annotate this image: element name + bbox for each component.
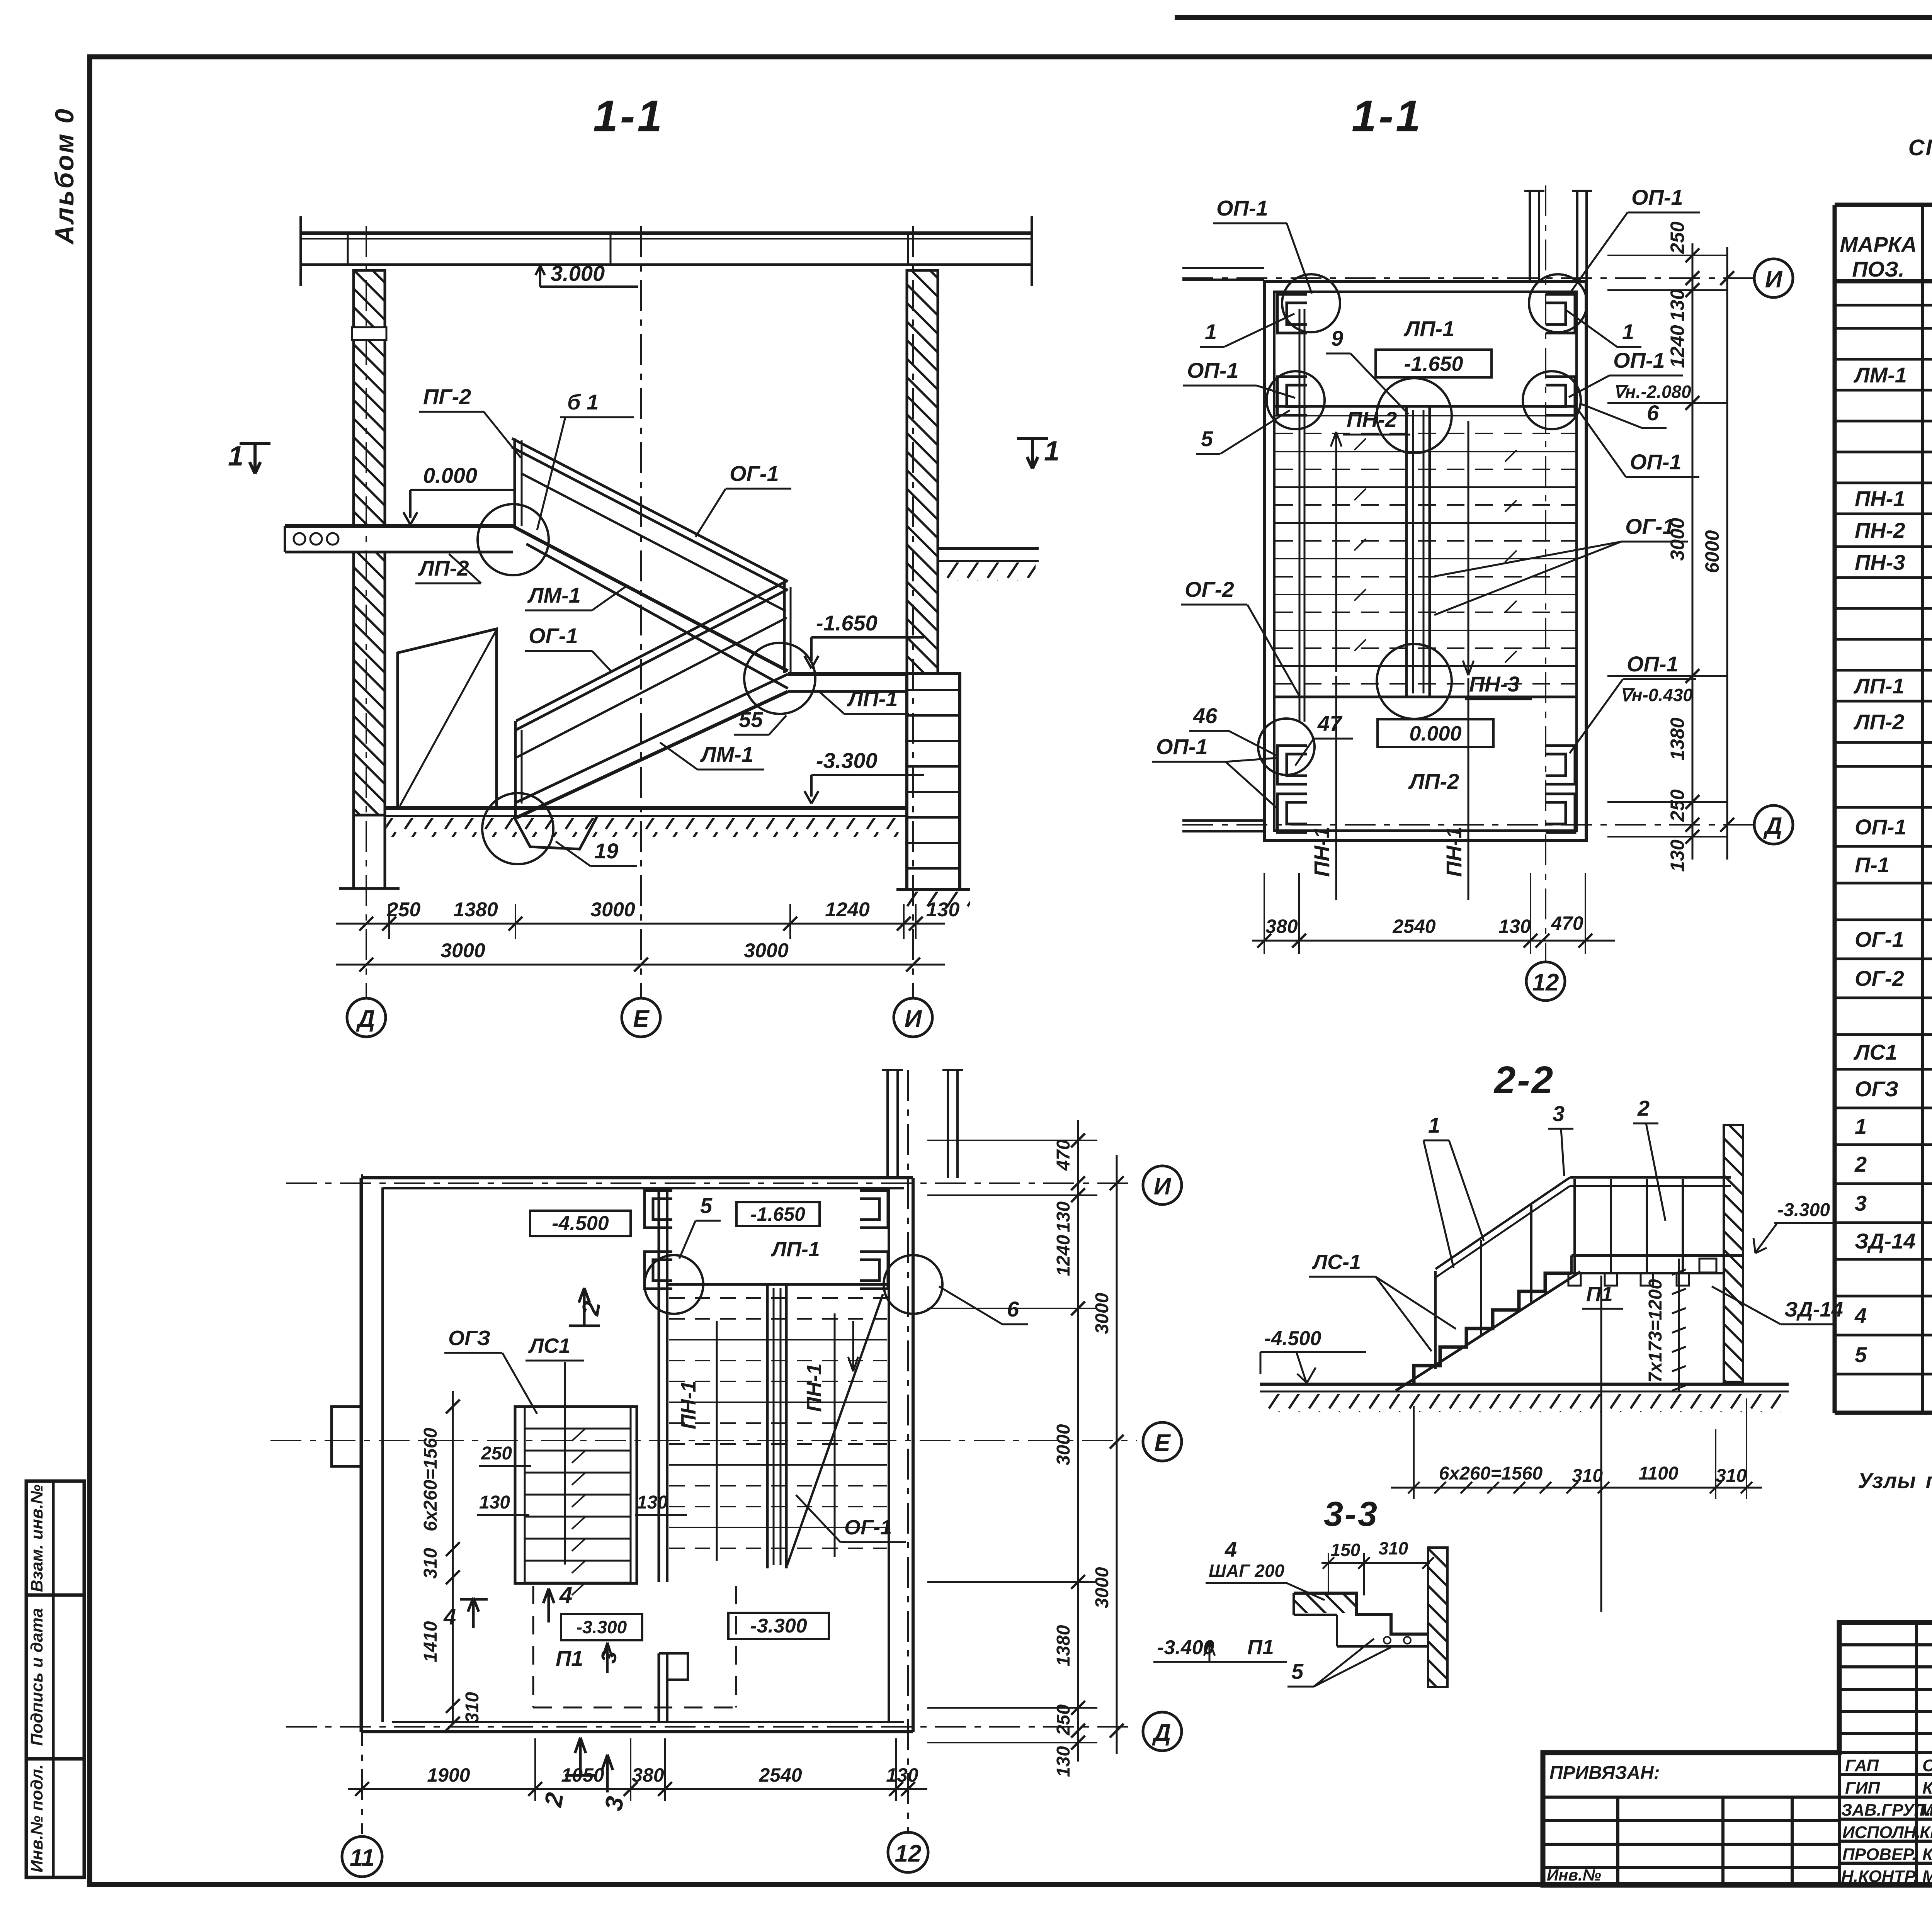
svg-text:4: 4	[1225, 1537, 1237, 1561]
svg-text:1: 1	[1044, 436, 1060, 467]
svg-text:2: 2	[1637, 1096, 1650, 1120]
lower flight LM-1	[516, 691, 788, 818]
svg-text:ПН-3: ПН-3	[1469, 672, 1520, 696]
svg-text:Е: Е	[633, 1006, 650, 1032]
svg-text:ЗАВ.ГРУП.: ЗАВ.ГРУП.	[1841, 1801, 1931, 1819]
svg-text:П1: П1	[1247, 1636, 1274, 1659]
svg-text:250: 250	[387, 899, 421, 921]
axis 12 line	[1545, 185, 1546, 961]
left stamp divider vertical	[52, 1481, 55, 1877]
sheet top edge line	[1175, 15, 1932, 20]
svg-text:П1: П1	[1586, 1283, 1613, 1306]
ground hatch 2-2	[1267, 1394, 1781, 1412]
roles and names	[1841, 1756, 1932, 1886]
svg-text:ЛМ-1: ЛМ-1	[700, 742, 753, 766]
lower guardrail bottom chord	[516, 618, 787, 758]
axis 12 line lower	[907, 1070, 909, 1834]
svg-text:1100: 1100	[1638, 1463, 1679, 1484]
svg-text:ОП-1: ОП-1	[1187, 358, 1239, 382]
svg-text:Узлы приняты по серии 2.250-2: Узлы приняты по серии 2.250-2 вып.1	[1858, 1468, 1932, 1493]
rebar dots	[1384, 1637, 1391, 1644]
svg-text:1900: 1900	[427, 1764, 470, 1786]
svg-text:130: 130	[926, 899, 960, 921]
svg-text:12: 12	[895, 1840, 922, 1867]
landing LP-2 edge	[1274, 696, 1577, 698]
detail circle 6	[884, 1255, 942, 1314]
svg-text:1: 1	[1622, 319, 1634, 344]
level mark 0.000	[403, 490, 514, 525]
svg-text:3000: 3000	[1092, 1567, 1112, 1608]
svg-text:47: 47	[1317, 711, 1343, 736]
bottom dim 2-2	[1391, 1487, 1762, 1489]
detail circle b1	[478, 504, 549, 575]
svg-text:310: 310	[1716, 1466, 1747, 1486]
svg-text:ПРОВЕР.: ПРОВЕР.	[1842, 1845, 1917, 1864]
divider lower	[767, 1284, 786, 1568]
ground hatch right	[939, 562, 1036, 581]
svg-text:П1: П1	[556, 1646, 583, 1670]
axis bubble И	[1754, 259, 1793, 297]
svg-text:2-2: 2-2	[1493, 1058, 1555, 1102]
svg-text:КИРИЕНКОВА: КИРИЕНКОВА	[1920, 1823, 1932, 1842]
svg-text:Е: Е	[1154, 1430, 1171, 1456]
svg-text:1: 1	[1855, 1114, 1867, 1138]
svg-text:1240: 1240	[1667, 325, 1688, 368]
wall footing left	[339, 815, 400, 888]
svg-text:Н.КОНТР.: Н.КОНТР.	[1841, 1867, 1918, 1886]
svg-text:И: И	[1154, 1173, 1172, 1200]
rail posts	[1435, 1179, 1683, 1369]
svg-text:3000: 3000	[1667, 518, 1688, 561]
svg-text:380: 380	[632, 1764, 664, 1786]
guardrail end post right	[783, 579, 786, 673]
svg-text:7х173=1200: 7х173=1200	[1645, 1279, 1666, 1383]
svg-text:3000: 3000	[1053, 1424, 1074, 1465]
svg-text:ПН-2: ПН-2	[1855, 518, 1905, 542]
boxed -4.500	[530, 1211, 631, 1236]
landing LP-1 edge	[1274, 405, 1577, 408]
pit under floor	[514, 817, 597, 849]
svg-text:ПН-1: ПН-1	[1310, 826, 1334, 877]
axis bubble Д	[1754, 805, 1793, 844]
upper flight LM-1	[512, 526, 788, 671]
axis И line	[1182, 277, 1754, 279]
svg-text:-4.500: -4.500	[1264, 1327, 1321, 1350]
svg-text:ЛС1: ЛС1	[1853, 1040, 1897, 1064]
axis Е line	[640, 226, 642, 998]
svg-text:Д: Д	[1763, 813, 1782, 839]
svg-text:ПГ-2: ПГ-2	[423, 384, 471, 409]
svg-text:ПОЗ.: ПОЗ.	[1852, 257, 1904, 281]
ground hatch under pier	[900, 892, 970, 909]
svg-text:Д: Д	[356, 1006, 375, 1032]
svg-text:3000: 3000	[440, 939, 485, 962]
door diagonal	[400, 631, 496, 806]
svg-text:1380: 1380	[1667, 717, 1688, 760]
svg-text:250: 250	[1667, 789, 1688, 822]
svg-text:2: 2	[1854, 1152, 1867, 1176]
detail circle 19	[482, 793, 553, 864]
svg-text:12: 12	[1532, 969, 1559, 996]
outer walls	[361, 1178, 913, 1732]
svg-text:∇н.-2.080: ∇н.-2.080	[1613, 382, 1691, 402]
axis И line	[912, 226, 914, 998]
axis bubble Е lower	[1143, 1422, 1182, 1461]
wall 3-3	[1428, 1548, 1447, 1687]
pier base line	[896, 888, 970, 891]
svg-text:ОГ-1: ОГ-1	[529, 623, 578, 648]
svg-text:-1.650: -1.650	[816, 611, 878, 635]
svg-text:ОГ-1: ОГ-1	[844, 1516, 892, 1539]
svg-text:4: 4	[1854, 1303, 1867, 1328]
privyazan box grid	[1543, 1797, 1839, 1885]
svg-text:9: 9	[1331, 326, 1343, 350]
svg-text:5: 5	[1201, 426, 1213, 451]
svg-text:ПРИВЯЗАН:: ПРИВЯЗАН:	[1549, 1763, 1660, 1783]
stairwell walls outer	[1264, 282, 1586, 841]
slab under step	[1337, 1645, 1428, 1648]
boxed level -1.650	[1376, 350, 1492, 377]
right dim total 6000	[1726, 247, 1728, 860]
left stamp divider 2	[26, 1757, 84, 1761]
svg-text:6000: 6000	[1701, 530, 1723, 573]
svg-text:1-1: 1-1	[1352, 92, 1423, 141]
left stamp divider 1	[26, 1594, 84, 1597]
svg-text:СМИРНОВ: СМИРНОВ	[1922, 1756, 1932, 1775]
svg-text:150: 150	[1331, 1540, 1361, 1560]
svg-text:1: 1	[1205, 319, 1217, 344]
tread lines lower	[669, 1298, 887, 1548]
svg-text:ПН-1: ПН-1	[1442, 826, 1466, 877]
hollow cores of LP-2	[294, 533, 305, 545]
svg-text:250: 250	[1667, 221, 1688, 254]
right brick pier	[907, 674, 960, 889]
svg-text:ИСПОЛН.: ИСПОЛН.	[1842, 1823, 1921, 1842]
level mark -1.650	[804, 637, 924, 668]
axis bubble Д	[347, 998, 386, 1037]
svg-text:Подпись и дата: Подпись и дата	[27, 1608, 46, 1746]
axis Д line	[366, 226, 367, 998]
svg-text:Взам. инв.№: Взам. инв.№	[27, 1485, 46, 1592]
vertical dim 7x173	[1678, 1259, 1680, 1391]
svg-text:ПН-3: ПН-3	[1855, 550, 1905, 574]
right wall 2-2	[1724, 1125, 1743, 1382]
section marks 2 3 bottom	[565, 1738, 613, 1792]
svg-text:380: 380	[1265, 916, 1298, 937]
level mark -3.300	[804, 775, 924, 804]
svg-text:ЛМ-1: ЛМ-1	[1853, 363, 1907, 387]
dimension line row 2	[336, 964, 945, 966]
post anchors under landing	[1568, 1273, 1689, 1286]
svg-text:3-3: 3-3	[1324, 1495, 1379, 1534]
PN-1 leader lines	[1335, 676, 1337, 900]
svg-text:3.000: 3.000	[551, 261, 605, 285]
anchor plates OP-1	[1277, 294, 1575, 832]
svg-text:ПН-1: ПН-1	[1855, 486, 1905, 511]
detail circles	[1258, 274, 1587, 775]
svg-text:46: 46	[1193, 703, 1218, 728]
down arrow	[1463, 421, 1474, 675]
axis Е lower line	[270, 1440, 1137, 1441]
svg-text:3000: 3000	[744, 939, 789, 962]
svg-text:∇н-0.430: ∇н-0.430	[1620, 685, 1693, 705]
svg-text:-3.300: -3.300	[816, 748, 878, 773]
right wall hatched	[907, 270, 938, 674]
svg-text:1380: 1380	[1053, 1625, 1074, 1666]
svg-text:ОП-1: ОП-1	[1627, 652, 1679, 676]
left pilaster	[332, 1407, 361, 1466]
svg-text:1-1: 1-1	[593, 92, 664, 141]
svg-text:ЛМ-1: ЛМ-1	[527, 583, 581, 607]
spec table pipe rows	[1854, 1109, 1932, 1220]
svg-text:470: 470	[1551, 912, 1583, 934]
interior partition	[659, 1188, 688, 1722]
svg-text:1410: 1410	[420, 1621, 441, 1662]
svg-text:ГИП: ГИП	[1845, 1779, 1881, 1797]
svg-text:3000: 3000	[1092, 1293, 1112, 1334]
svg-text:ЛП-2: ЛП-2	[418, 556, 469, 580]
svg-text:ЛС-1: ЛС-1	[1311, 1250, 1361, 1274]
svg-text:ОГ-1: ОГ-1	[1855, 927, 1904, 951]
svg-text:5: 5	[700, 1193, 713, 1218]
stair LS1 block	[515, 1407, 637, 1583]
svg-text:130: 130	[1667, 839, 1688, 872]
level mark 3.000	[536, 266, 638, 287]
svg-text:6х260=1560: 6х260=1560	[1439, 1463, 1543, 1484]
svg-text:ОП-1: ОП-1	[1216, 196, 1268, 220]
floor lines left top	[1182, 267, 1264, 269]
axis bubble И lower	[1143, 1166, 1182, 1204]
right dim chain coarse lower	[1116, 1155, 1118, 1754]
landing LP-1 edge lower plan	[667, 1283, 889, 1286]
signature table row lines	[1839, 1643, 1932, 1646]
ground line	[1260, 1383, 1789, 1386]
svg-text:МАРКА: МАРКА	[1840, 232, 1917, 257]
svg-text:-4.500: -4.500	[552, 1212, 609, 1235]
wall opening above	[1524, 191, 1592, 282]
svg-text:5: 5	[1291, 1659, 1304, 1684]
flight down arrow lower	[848, 1321, 858, 1371]
guardrail diagonal OG-1 lower	[787, 1294, 883, 1565]
svg-text:МАРГУЛИЯ: МАРГУЛИЯ	[1922, 1867, 1932, 1886]
svg-text:ОГ-2: ОГ-2	[1185, 577, 1234, 601]
svg-text:1380: 1380	[453, 899, 498, 921]
axis Д lower line	[286, 1726, 1137, 1728]
axis 11 line	[361, 1174, 363, 1834]
handrail landing	[1570, 1176, 1731, 1179]
svg-text:6х260=1560: 6х260=1560	[420, 1428, 441, 1532]
svg-text:Альбом 0: Альбом 0	[50, 107, 79, 245]
svg-text:310: 310	[1379, 1538, 1408, 1558]
spec table header	[1840, 228, 1932, 281]
top floor slab	[301, 216, 1032, 286]
svg-text:ПН-1: ПН-1	[677, 1381, 700, 1429]
boxed -3.300 lower	[728, 1613, 829, 1639]
svg-text:ЛП-1: ЛП-1	[1403, 316, 1455, 341]
svg-text:310: 310	[1572, 1466, 1603, 1486]
svg-text:55: 55	[739, 707, 763, 732]
walk line ticks	[1354, 438, 1517, 663]
svg-text:3: 3	[1855, 1191, 1867, 1215]
svg-text:4: 4	[443, 1604, 456, 1629]
svg-text:ЛП-2: ЛП-2	[1408, 769, 1459, 793]
svg-text:130: 130	[1053, 1201, 1074, 1232]
dim values row 1	[387, 899, 960, 921]
spec table data rows	[1853, 363, 1932, 1406]
lower guardrail OG-2	[516, 581, 787, 721]
svg-text:470: 470	[1053, 1140, 1074, 1171]
bottom dim values	[1265, 912, 1583, 937]
stair hatch ticks	[572, 1429, 585, 1595]
svg-text:-3.300: -3.300	[1777, 1200, 1830, 1220]
door opening	[398, 629, 497, 808]
boxed -1.650 lower	[736, 1202, 820, 1226]
external floor right	[938, 547, 1039, 550]
svg-text:130: 130	[1667, 289, 1688, 321]
svg-text:3: 3	[1553, 1101, 1565, 1126]
svg-text:Инв.№ подл.: Инв.№ подл.	[27, 1764, 46, 1872]
svg-text:ЛП-1: ЛП-1	[847, 686, 898, 711]
svg-text:130: 130	[479, 1492, 510, 1513]
svg-text:КАЛЕДИНА: КАЛЕДИНА	[1922, 1779, 1932, 1797]
dimension line row 1	[336, 923, 945, 925]
svg-text:1240: 1240	[1053, 1235, 1074, 1276]
left wall joint band	[352, 327, 386, 340]
svg-text:ЗД-14: ЗД-14	[1784, 1298, 1843, 1321]
svg-text:130: 130	[637, 1492, 668, 1513]
stringer underside	[1396, 1272, 1580, 1391]
landing LP-1 slab -1.650	[788, 672, 907, 676]
svg-text:310: 310	[462, 1692, 483, 1723]
svg-text:Д: Д	[1152, 1719, 1171, 1746]
spec table grid	[1835, 205, 1932, 1413]
svg-text:б 1: б 1	[567, 390, 599, 414]
ground hatch under floor	[386, 818, 904, 837]
anchor plate right	[1699, 1259, 1716, 1272]
left wall hatched	[354, 270, 385, 526]
svg-text:ОП-1: ОП-1	[1630, 450, 1682, 474]
svg-text:ПН-2: ПН-2	[1347, 407, 1397, 432]
svg-text:3000: 3000	[590, 899, 635, 921]
svg-text:11: 11	[350, 1845, 374, 1871]
axis bubble Д lower	[1143, 1712, 1182, 1751]
svg-text:1240: 1240	[825, 899, 870, 921]
svg-text:250: 250	[1053, 1704, 1074, 1736]
svg-text:130: 130	[886, 1764, 918, 1786]
anchor plates lower plan	[645, 1191, 888, 1289]
svg-text:ЗД-14: ЗД-14	[1855, 1229, 1915, 1253]
svg-text:1: 1	[228, 441, 243, 472]
extension lines row 1	[389, 904, 916, 939]
slab P1 dashed outline	[533, 1586, 736, 1707]
svg-text:ГАП: ГАП	[1845, 1756, 1879, 1775]
svg-text:ЛС1: ЛС1	[528, 1334, 570, 1357]
guardrail end post PG-2	[514, 438, 516, 526]
svg-text:-3.400: -3.400	[1157, 1636, 1214, 1659]
svg-text:5: 5	[1855, 1342, 1867, 1367]
bottom dim line	[1252, 940, 1615, 942]
step profile 3-3	[1294, 1593, 1428, 1634]
svg-text:-3.300: -3.300	[750, 1615, 807, 1637]
svg-text:1: 1	[1428, 1113, 1440, 1137]
axis bubble 12 lower	[888, 1832, 928, 1872]
svg-text:И: И	[1765, 266, 1783, 293]
svg-text:130: 130	[1053, 1746, 1074, 1777]
axis bubble И	[894, 998, 932, 1037]
svg-text:ЛП-1: ЛП-1	[770, 1238, 820, 1261]
svg-text:250: 250	[481, 1443, 512, 1464]
svg-text:2540: 2540	[759, 1764, 802, 1786]
top dims 150 310	[1321, 1562, 1430, 1564]
svg-text:ОГЗ: ОГЗ	[448, 1327, 490, 1350]
svg-text:И: И	[905, 1006, 922, 1032]
svg-text:-3.300: -3.300	[577, 1617, 627, 1637]
right dim chain fine lower	[1077, 1120, 1079, 1762]
axis И lower line	[286, 1182, 1137, 1184]
svg-text:1050: 1050	[561, 1764, 604, 1786]
landing LP-2 slab 0.000	[285, 526, 513, 552]
svg-text:-1.650: -1.650	[750, 1203, 805, 1225]
svg-text:ЛП-2: ЛП-2	[1853, 710, 1905, 734]
railing OG-2 along left wall	[1299, 309, 1301, 722]
title block outline	[1543, 1622, 1932, 1885]
lower guardrail end post left	[514, 721, 517, 815]
axis Д line	[1182, 824, 1754, 826]
up arrow	[1331, 432, 1342, 672]
svg-text:6: 6	[1647, 401, 1659, 425]
axis bubble 11	[342, 1836, 382, 1877]
axis bubble 12	[1526, 962, 1565, 1001]
svg-text:ОГ-1: ОГ-1	[730, 461, 779, 486]
floor lines left bottom	[1182, 819, 1264, 822]
axis bubble Е	[622, 998, 660, 1037]
bottom floor -3.300	[385, 806, 907, 810]
small boxed -3.300 left	[561, 1614, 642, 1640]
stairwell walls inner	[1274, 292, 1577, 831]
svg-text:19: 19	[594, 839, 618, 863]
svg-text:КАЛЕДИНА: КАЛЕДИНА	[1922, 1845, 1932, 1864]
svg-text:ПН-1: ПН-1	[803, 1363, 826, 1412]
stair steps sawtooth	[1414, 1273, 1571, 1384]
svg-text:130: 130	[1498, 916, 1531, 937]
wall stubs above	[882, 1070, 963, 1178]
upper guardrail OG-1	[512, 438, 788, 581]
svg-text:ОП-1: ОП-1	[1613, 348, 1665, 372]
left stamp column	[26, 1481, 84, 1877]
right dim chain fine	[1692, 243, 1694, 860]
detail circle 55	[744, 643, 815, 714]
left dim chain stair	[452, 1391, 454, 1724]
tread lines	[1275, 416, 1577, 684]
svg-text:П-1: П-1	[1855, 853, 1889, 877]
landing slab 2-2	[1571, 1254, 1743, 1257]
svg-text:ШАГ 200: ШАГ 200	[1209, 1561, 1284, 1581]
detail circle 5	[645, 1255, 703, 1314]
svg-text:0.000: 0.000	[423, 463, 477, 488]
concrete block hatched	[1295, 1595, 1355, 1613]
svg-text:Инв.№: Инв.№	[1547, 1866, 1601, 1884]
flight divider	[1406, 406, 1430, 697]
svg-text:4: 4	[559, 1582, 572, 1608]
handrail flight	[1435, 1177, 1570, 1269]
dim values row 2	[440, 939, 789, 962]
signature table columns	[1839, 1622, 1932, 1885]
svg-text:0.000: 0.000	[1409, 722, 1461, 745]
upper guardrail bottom chord	[521, 473, 786, 611]
svg-text:310: 310	[420, 1548, 441, 1579]
svg-text:СПЕЦИФИКАЦИЯ ЭЛЕМЕНТОВ ЛЕСТН: СПЕЦИФИКАЦИЯ ЭЛЕМЕНТОВ ЛЕСТНИЦЫ Л-1	[1908, 135, 1932, 160]
svg-text:2540: 2540	[1392, 916, 1435, 937]
